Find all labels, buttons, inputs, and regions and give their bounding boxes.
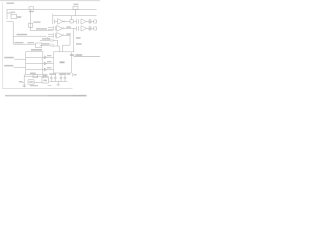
schematic bottom border [3,88,73,90]
label at bridge output [17,17,21,18]
U1 left label 2 [4,65,13,67]
comparator gate U3B [57,33,63,39]
pin stub label [74,74,77,75]
label row y45 [42,43,50,44]
wire row y45 [40,44,50,46]
pin wire row 1 with diode [26,56,54,58]
row A output wire [64,27,76,29]
gate row B inputs [48,33,53,35]
bottom wire y82 [34,81,42,83]
J2 inner label [43,80,47,82]
pin label 2 [47,61,51,62]
footer url text right part [72,95,87,97]
diode D5 [44,75,46,78]
oscillator row y21.5: cap bars [52,14,54,24]
right standalone label 2 [76,43,82,45]
cap bars [76,19,78,24]
inverter bubble U3A [63,28,64,29]
small box bottom left [28,80,34,84]
diode D1 label [11,12,15,13]
crystal X1 cross [89,19,91,24]
connector J2 label [43,74,48,76]
+5V node label left [70,54,74,56]
vertical wire from rail at x30 [30,9,32,30]
label mid wire [28,42,35,43]
decoupling cap column 4 [64,73,66,81]
decoupling cap column 2 [54,73,56,81]
branch wire VCC2 [13,43,35,45]
row A output label [66,26,71,27]
pin label 1 [47,55,51,56]
row B cap bars [53,33,55,37]
U4 center label [60,62,65,64]
U4 bottom right pin stub [72,73,74,76]
wire stub lower left [7,21,14,23]
decoupling cap column 3 [60,73,62,81]
pin wire row 2 with diode [26,62,54,64]
bottom small label [30,85,38,86]
IC U4 box [54,52,72,73]
stub from mid wire to R3 [71,16,73,20]
VCC2 label [15,42,24,43]
wire row y40 [40,39,50,41]
bridge rectifier B1 box [11,14,17,18]
row A buffer gate right [81,26,87,31]
pin label 3 [47,67,51,68]
row A cap bars [53,26,55,30]
wire mid jog [30,36,50,40]
VCC1 label [17,34,28,35]
bottom left vertical wire [23,74,25,87]
page top rule [0,0,100,2]
trim cap box [94,20,97,23]
small box on VCC2 [36,43,42,47]
page left border [2,3,4,89]
label row y40 [42,38,50,39]
capacitor bars row y45 [50,44,52,47]
diode D2 [44,56,47,59]
row B output label [66,33,71,34]
relay K1 label [73,4,78,6]
row B output wire [63,35,71,52]
regulator output wire [31,30,53,32]
U1 designator label [31,49,42,51]
cap labels right pair [59,73,66,75]
wire from bridge to node [17,15,22,17]
wire [73,20,76,22]
decoupling cap column 1 [50,76,52,82]
long mid wire y15.6 [53,15,97,17]
ground symbol [57,83,60,85]
inverter gate U2A [58,19,64,25]
right standalone label 1 [76,37,81,39]
polarized cap cross [23,84,26,86]
header label text [7,3,15,4]
label near node [9,12,13,13]
wire to crystal [87,20,94,22]
tick on vertical [21,81,24,83]
long +5V wire [74,56,101,58]
resistor R3 box [70,20,73,23]
top power rail wire [7,8,97,10]
ground stem [57,81,59,84]
label left of vertical [19,81,23,82]
connector J2 box [42,77,48,83]
wire into box2 top b [53,46,59,52]
left vertical supply wire [6,9,8,19]
cap labels far right [67,73,71,75]
branch vertical from row A [72,28,74,52]
comparator gate U3A [57,26,63,32]
capacitor C1 inline [29,23,33,27]
fuse F1 value label [29,11,34,12]
row y21.5 wire [55,20,58,22]
inverter bubble U3B [63,35,64,36]
junction drop from relay [74,9,76,15]
wire to crystal 2 [87,27,94,29]
trim cap box 2 [94,27,97,30]
ground symbol 2 [48,84,52,86]
branch wire VCC1 [13,35,30,37]
buffer gate [81,19,87,24]
label right of C1 [34,21,41,22]
U1 left label 1 [4,57,14,59]
row A cap bars right [76,26,78,31]
node tick [72,51,74,53]
net label on output wire [36,28,47,29]
node tick at left rail [7,12,10,14]
left bus vertical [12,22,14,45]
gate row A inputs [48,26,53,28]
+5V node label right [75,54,82,56]
capacitor bars row y40 [50,39,52,42]
footer url text left part [5,95,48,97]
fuse F1 on top rail [29,7,34,10]
U1 left input wire 1 [14,58,25,60]
inverter bubble U2A [64,21,65,22]
crystal X2 cross [89,26,91,31]
cap labels left pair [49,73,56,75]
wire through R5 [24,75,48,77]
resistor R5 inline bottom [33,75,38,78]
relay K1 box on rail [73,7,78,10]
diode D3 [44,62,47,65]
footer url text mid part [48,95,72,97]
gate output wire [65,20,70,22]
box inner label [29,81,33,83]
wire into box2 top a [53,40,58,46]
diode D4 [44,68,47,71]
R5 label [30,73,36,74]
IC U1 box [26,52,43,75]
pin wire row 3 with diode [26,69,54,71]
ground bus wire [50,80,68,82]
U1 left input wire 2 [14,66,26,68]
